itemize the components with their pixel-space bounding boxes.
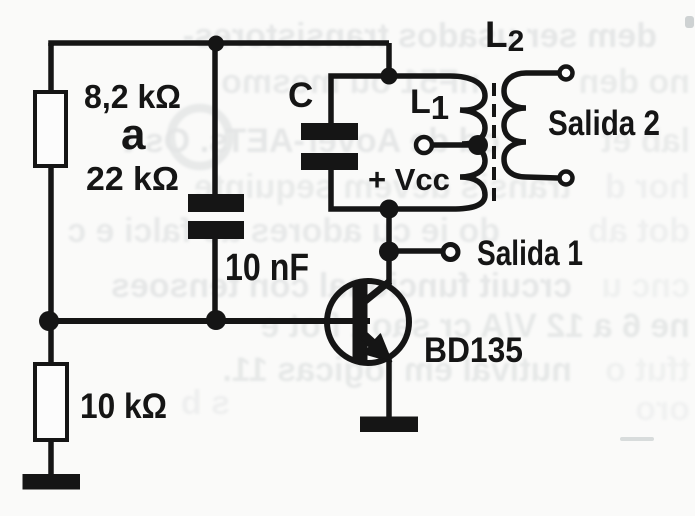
wire cap C to tank bottom <box>331 166 389 209</box>
svg-text:hor d: hor d <box>605 168 690 206</box>
wire top horizontal <box>51 43 389 46</box>
node salida 1 junction <box>379 242 399 262</box>
svg-text:Salida 2: Salida 2 <box>548 104 660 143</box>
core dashed line <box>492 83 496 203</box>
svg-text:no den: no den <box>579 63 690 101</box>
wire center tap <box>432 142 476 148</box>
faint edge tick <box>685 16 694 28</box>
transistor Q1 BD135 <box>327 281 409 363</box>
wire tank top <box>331 76 389 126</box>
node tank bottom junction <box>380 200 399 219</box>
capacitor C plate 1 <box>301 123 358 140</box>
terminal salida 2 top <box>560 67 573 80</box>
wire node to C2 <box>212 43 218 196</box>
capacitor C2 10nF plate 2 <box>188 221 244 239</box>
svg-text:dot ab: dot ab <box>588 212 690 250</box>
wire node to R2 <box>48 321 54 366</box>
node top junction <box>208 36 224 52</box>
wire collector <box>386 251 392 285</box>
node Vcc top junction <box>381 68 398 85</box>
node center tap junction <box>468 135 488 155</box>
capacitor C2 10nF plate 1 <box>188 194 244 212</box>
ground left <box>23 474 81 490</box>
svg-text:cnc u: cnc u <box>601 267 690 305</box>
inductor L1 center tap terminal <box>416 137 432 153</box>
wire top-right vertical <box>386 43 392 78</box>
svg-text:+ Vcc: + Vcc <box>368 162 450 197</box>
svg-text:10 kΩ: 10 kΩ <box>80 387 167 426</box>
svg-text:do ie cu adores ao falci e c: do ie cu adores ao falci e c <box>67 212 500 250</box>
svg-text:tfut o: tfut o <box>605 351 690 389</box>
wire C2 to base wire <box>212 237 218 321</box>
resistor R1 8,2k-22k <box>35 92 66 166</box>
resistor R2 10k <box>35 364 67 440</box>
ghost bleed-through text (mirrored, decorative) <box>67 17 690 428</box>
svg-text:s b: s b <box>181 384 230 422</box>
svg-text:C: C <box>288 76 313 115</box>
svg-text:dem ser usados trans: dem ser usados transistores- <box>183 17 657 55</box>
terminal salida 2 bottom <box>560 172 573 185</box>
wire left vertical to R1 <box>48 43 54 94</box>
node base left junction <box>39 311 59 331</box>
capacitor C plate 2 <box>301 153 358 170</box>
wire tank bottom node to salida node <box>386 209 392 251</box>
svg-text:BD135: BD135 <box>424 331 523 370</box>
node base mid junction <box>206 310 226 330</box>
svg-text:oro: oro <box>635 390 690 428</box>
wire base horizontal <box>49 318 370 324</box>
svg-text:10 nF: 10 nF <box>225 247 309 289</box>
inductor L1 <box>389 76 485 209</box>
svg-text:L1: L1 <box>410 83 449 126</box>
wire emitter to ground <box>386 358 392 418</box>
wire R1 to base node <box>48 164 54 323</box>
terminal salida 1 <box>443 245 458 260</box>
inductor L2 <box>504 73 558 178</box>
svg-text:Salida 1: Salida 1 <box>477 234 583 273</box>
wire salida 1 lead <box>389 248 442 254</box>
ground emitter <box>360 417 418 433</box>
svg-text:a: a <box>121 110 146 159</box>
svg-text:22 kΩ: 22 kΩ <box>86 160 179 197</box>
wire R2 to ground <box>48 438 54 478</box>
faint page smudge <box>620 437 654 441</box>
